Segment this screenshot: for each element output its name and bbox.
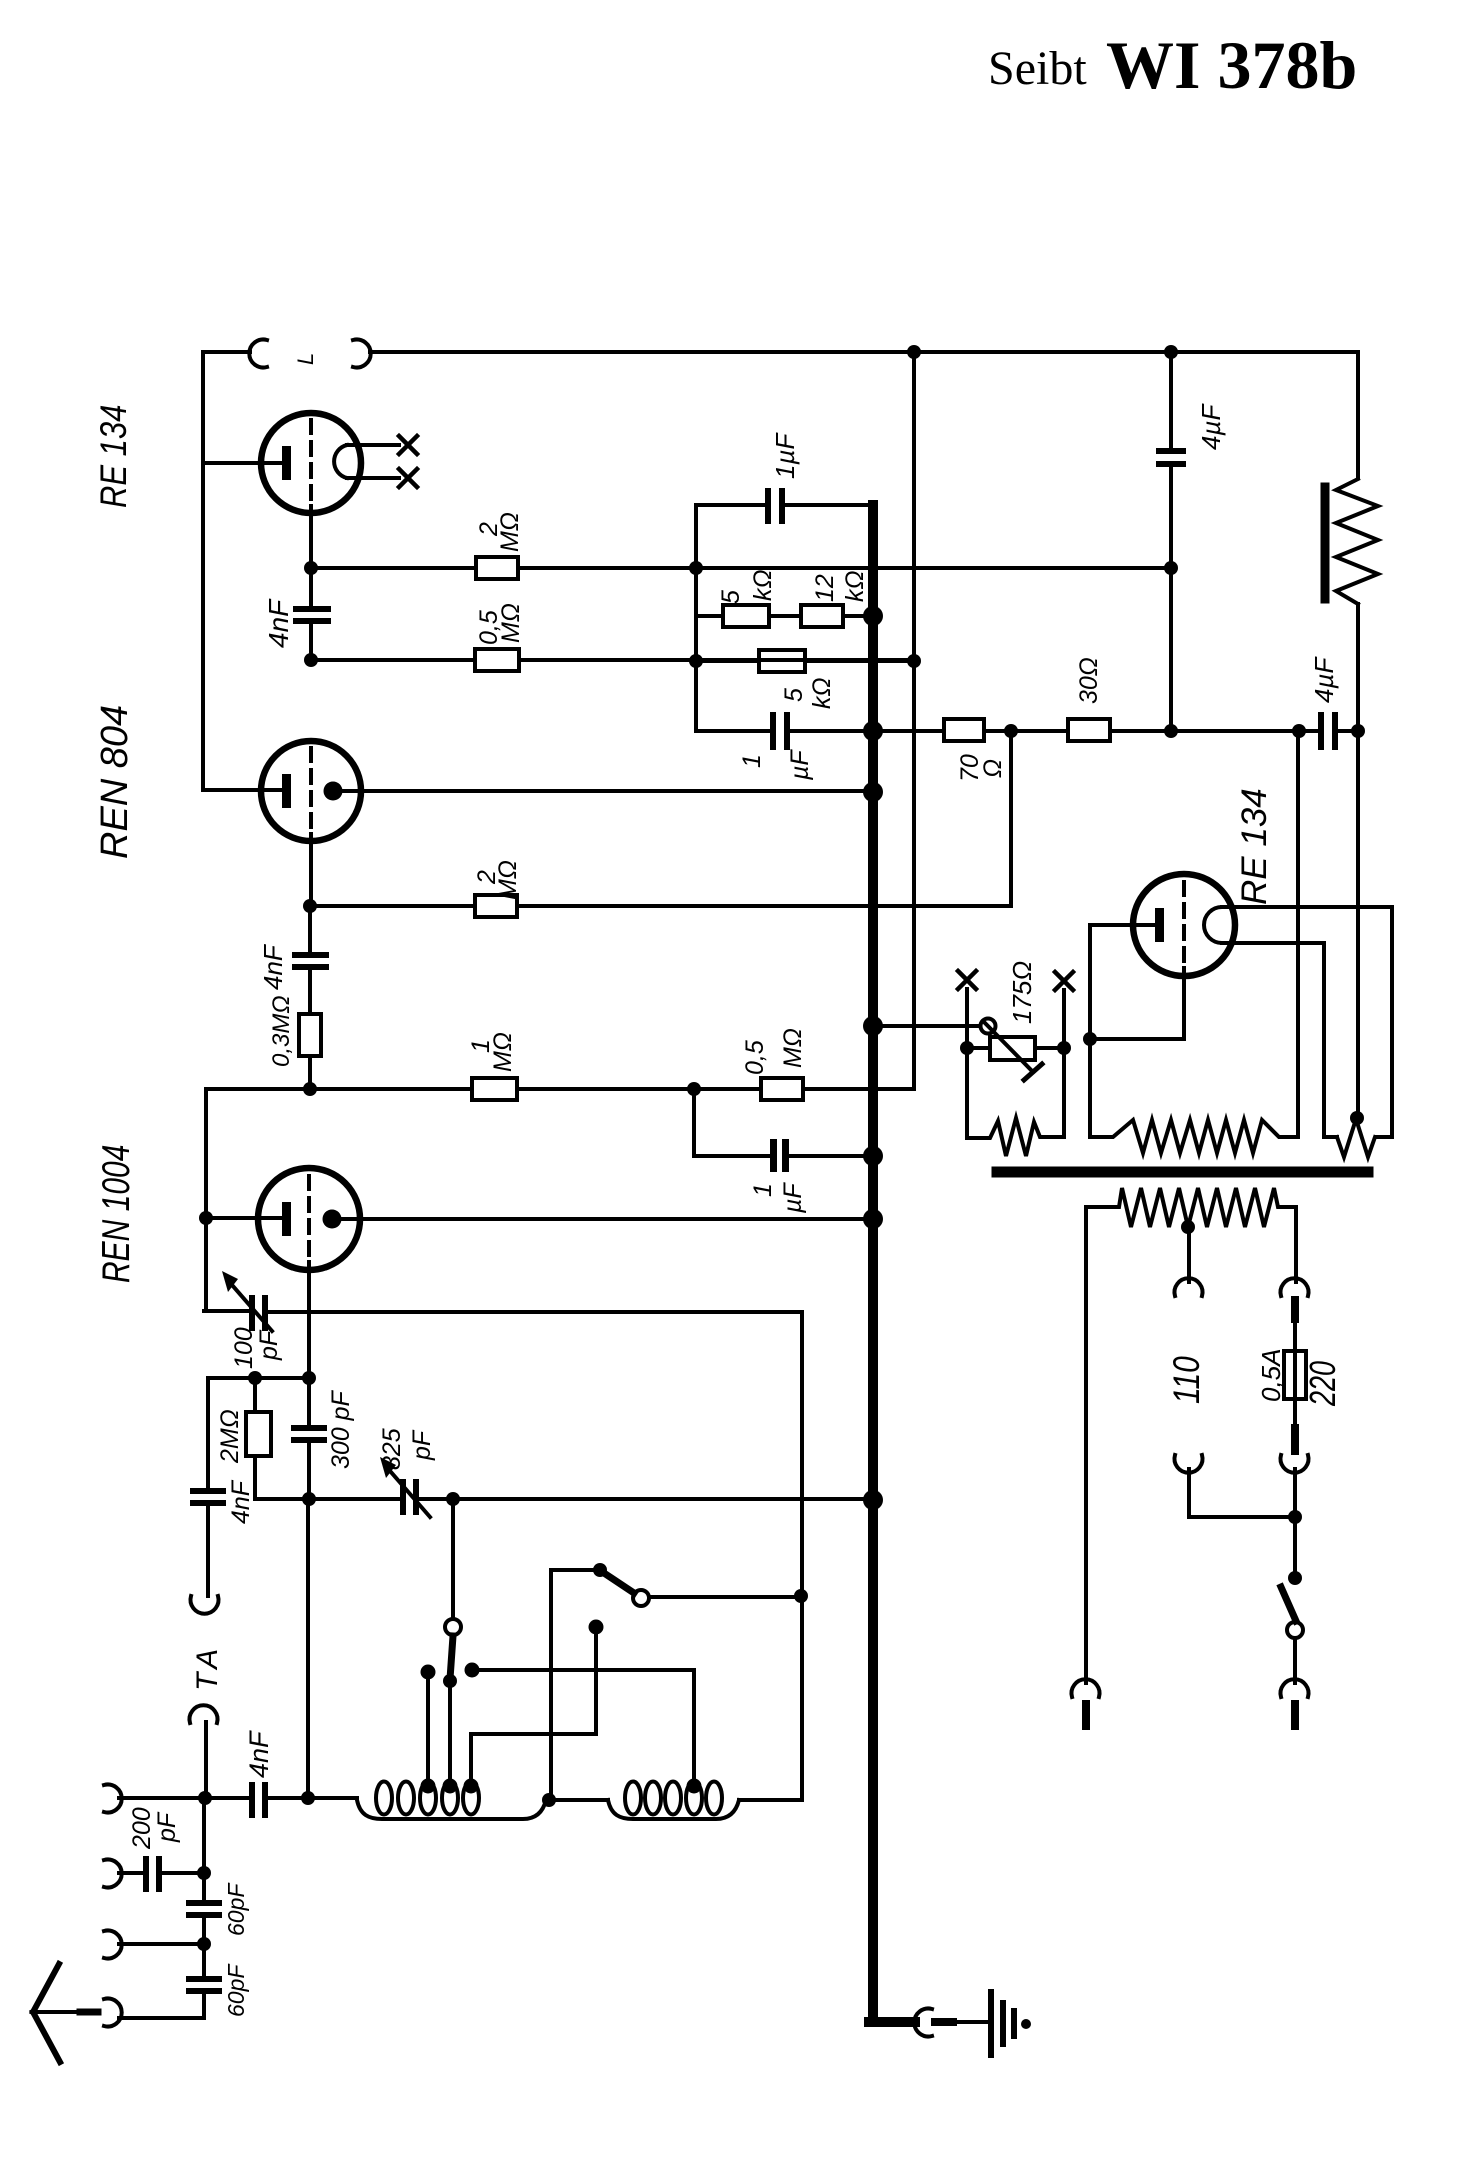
capacitor 4nF antenna <box>249 1782 255 1818</box>
svg-text:kΩ: kΩ <box>841 570 869 602</box>
wire vertical 914 <box>912 352 916 1089</box>
wire antenna row 1873 <box>119 1871 204 1875</box>
wire 0,3M to row <box>308 1056 312 1089</box>
tube V4 filament loop <box>1204 907 1222 943</box>
node junction <box>199 1211 213 1225</box>
transformer secondary winding <box>1086 1188 1296 1227</box>
resistor 30 Ohm <box>1068 719 1110 741</box>
mains terminal left pin <box>1082 1704 1090 1726</box>
potentiometer slider bar <box>1321 487 1330 599</box>
svg-text:60pF: 60pF <box>223 1963 249 2017</box>
contact dot mid <box>465 1663 480 1678</box>
antenna jack 1 <box>104 1785 122 1813</box>
wire earth <box>953 2020 988 2024</box>
wire row 906 <box>310 904 1011 908</box>
speaker jack L left contact <box>249 340 267 368</box>
wire L jack stub left <box>203 350 250 354</box>
TA jack top contact <box>191 1596 219 1614</box>
rheostat 175 slider circle <box>981 1019 996 1034</box>
wire top rail <box>370 350 1358 354</box>
wire V1 grid to node <box>309 506 313 568</box>
resistor 2 MOhm (V2 grid) <box>475 895 517 917</box>
antenna jack 2 <box>104 1860 122 1888</box>
capacitor 1uF lower <box>770 712 776 750</box>
svg-text:825: 825 <box>378 1428 406 1470</box>
wire tap 429 <box>426 1672 430 1784</box>
svg-text:12: 12 <box>811 574 839 602</box>
wire row C <box>696 614 873 618</box>
earth jack contact <box>914 2009 932 2037</box>
node junction <box>446 1492 460 1506</box>
ground symbol <box>988 1992 994 2055</box>
wire left drop 208 <box>206 1378 210 1487</box>
wire V1 filament leads <box>347 445 399 478</box>
node junction <box>794 1589 808 1603</box>
wire row 1089 <box>206 1087 914 1091</box>
mains terminal right <box>1281 1679 1309 1697</box>
wire 551 down <box>549 1570 553 1800</box>
node junction <box>197 1866 211 1880</box>
svg-text:kΩ: kΩ <box>749 569 777 601</box>
tube V3 grid (dashed) <box>307 1176 311 1262</box>
tube V2 grid (dashed) <box>309 748 313 834</box>
node junction <box>1351 724 1365 738</box>
wire between coils <box>546 1798 608 1802</box>
wire left rail 2 <box>204 1089 208 1311</box>
svg-text:µF: µF <box>779 1182 807 1214</box>
wire to fuse <box>1293 1319 1297 1351</box>
wire V4 plate lead <box>1090 923 1155 927</box>
wire V4 grid link <box>1090 968 1184 1039</box>
svg-text:MΩ: MΩ <box>779 1028 807 1068</box>
fuse 0,5A <box>1284 1351 1306 1399</box>
svg-text:4µF: 4µF <box>1309 656 1339 703</box>
X mark filament bottom <box>399 469 417 487</box>
svg-text:200: 200 <box>128 1807 156 1850</box>
coil L2 <box>608 1782 739 1820</box>
wire 175 row from bus <box>873 1024 980 1028</box>
wire V4 filament top <box>1222 907 1392 1137</box>
antenna pin <box>80 2009 98 2016</box>
svg-text:4µF: 4µF <box>1196 403 1226 450</box>
svg-text:MΩ: MΩ <box>496 512 524 552</box>
wire row 660 right <box>519 658 914 662</box>
wire 204 between 60pFs <box>202 1919 206 1976</box>
resistor 5 kOhm second <box>759 650 805 672</box>
tube V2 cathode <box>324 782 343 801</box>
switch waveband contact circle <box>445 1619 461 1635</box>
node junction <box>687 1082 701 1096</box>
wire 204 above 60pF <box>202 1873 206 1900</box>
wire row 1670 <box>472 1668 694 1672</box>
capacitor 60pF upper <box>186 1900 222 1906</box>
node junction <box>302 1492 316 1506</box>
node junction <box>302 1371 316 1385</box>
resistor 0,5 MOhm second <box>761 1078 803 1100</box>
resistor 12 kOhm <box>801 605 843 627</box>
rheostat 175 body <box>990 1037 1035 1060</box>
wire vertical 1171 lower <box>1169 468 1173 731</box>
node junction <box>304 653 318 667</box>
resistor 0,5 MOhm <box>475 649 519 671</box>
svg-text:4nF: 4nF <box>227 1479 255 1524</box>
node junction <box>1288 1510 1302 1524</box>
wire antenna row 1944 <box>119 1942 204 1946</box>
svg-text:4nF: 4nF <box>244 1730 274 1778</box>
capacitor 1uF (bus, AF) <box>770 1139 777 1172</box>
svg-text:4nF: 4nF <box>263 598 294 648</box>
transformer core <box>997 1167 1368 1178</box>
svg-text:REN 804: REN 804 <box>94 705 136 859</box>
TA jack bottom contact <box>190 1705 218 1723</box>
rheostat 175 T-bar <box>1024 1064 1042 1080</box>
svg-text:5: 5 <box>780 688 808 702</box>
wire TA to antenna row <box>204 1722 208 1798</box>
wire switch to 802 <box>649 1595 802 1599</box>
node junction <box>248 1371 262 1385</box>
tube REN804 V2 envelope <box>261 741 361 841</box>
wire coil2 to 802 <box>739 1798 802 1802</box>
svg-text:REN 1004: REN 1004 <box>95 1145 138 1283</box>
capacitor 100pF trimmer <box>204 1309 247 1313</box>
wire secondary right drop <box>1294 1207 1298 1282</box>
mains socket 220 bottom <box>1281 1455 1309 1473</box>
mains socket 110 bottom <box>1175 1455 1203 1473</box>
wire 694 to coil2 tap <box>692 1670 696 1784</box>
tube RE134 V4 envelope <box>1133 874 1235 976</box>
tube V4 grid (dashed) <box>1182 882 1186 968</box>
capacitor 4nF coupling V1 <box>309 568 313 605</box>
node junction <box>1004 724 1018 738</box>
tube V3 cathode <box>323 1210 342 1229</box>
wire 694 down to 1uF <box>694 1089 873 1156</box>
wire left rail <box>201 352 205 790</box>
tube REN1004 V3 envelope <box>258 1168 360 1270</box>
tube V1 grid (dashed) <box>309 420 313 506</box>
svg-text:pF: pF <box>255 1329 283 1361</box>
capacitor 1uF (across 5k/12k) <box>765 488 771 524</box>
title <box>988 27 1357 103</box>
wire 204 col bottom <box>202 1995 206 2018</box>
wire row E right <box>1110 729 1358 733</box>
ground bus (thick) <box>869 505 915 2022</box>
node secondary CT <box>1181 1220 1195 1234</box>
antenna symbol <box>33 1964 60 2062</box>
speaker jack L right contact <box>353 340 371 368</box>
node junction filament CT <box>1350 1111 1364 1125</box>
wire blade to coil tap <box>448 1681 452 1784</box>
tube V1 plate <box>282 446 291 480</box>
wire below fuse <box>1293 1399 1297 1427</box>
mains socket 220 top <box>1281 1278 1309 1296</box>
coil2 tap dot <box>687 1779 702 1794</box>
wire right rail mid <box>1356 604 1360 1118</box>
wire secondary CT down <box>1187 1227 1191 1282</box>
svg-text:60pF: 60pF <box>223 1882 249 1936</box>
mains terminal left <box>1072 1679 1100 1697</box>
wire V3 cathode to bus <box>341 1217 873 1221</box>
svg-text:1µF: 1µF <box>770 432 800 479</box>
svg-text:pF: pF <box>408 1429 436 1461</box>
svg-text:0,3MΩ: 0,3MΩ <box>268 995 295 1067</box>
coil L1 <box>357 1782 546 1820</box>
wire 204 to row 1798 <box>202 1798 206 1873</box>
wire secondary left drop <box>1084 1207 1088 1683</box>
svg-text:Seibt: Seibt <box>988 42 1087 95</box>
antenna jack 4 <box>104 1999 122 2027</box>
svg-text:2MΩ: 2MΩ <box>216 1409 244 1464</box>
capacitor 300 pF <box>307 1378 311 1424</box>
svg-text:RE 134: RE 134 <box>1235 788 1274 905</box>
wire row B right <box>518 566 1171 570</box>
wire V4 filament bottom <box>1222 943 1337 1137</box>
svg-text:pF: pF <box>153 1811 181 1843</box>
svg-text:220: 220 <box>1302 1361 1343 1407</box>
svg-text:5: 5 <box>717 590 745 604</box>
coil tap dots <box>421 1779 436 1794</box>
svg-text:100: 100 <box>230 1327 258 1369</box>
svg-text:MΩ: MΩ <box>497 603 525 643</box>
resistor 1 MOhm <box>472 1078 517 1100</box>
wire vertical 1171 upper <box>1169 352 1173 446</box>
node junction <box>304 561 318 575</box>
capacitor 4nF (V2 grid chain) <box>308 906 312 951</box>
node junction <box>689 654 703 668</box>
wire row 1570 <box>551 1568 596 1572</box>
X mark lamp right <box>1055 972 1073 990</box>
capacitor 4nF (TA) <box>190 1488 226 1494</box>
mains switch blade <box>1281 1587 1296 1621</box>
capacitor 825pF trimmer <box>400 1479 406 1515</box>
node junction <box>198 1791 212 1805</box>
wire V3 plate lead <box>206 1216 284 1220</box>
svg-text:30Ω: 30Ω <box>1075 657 1103 704</box>
wire vertical 802 <box>800 1312 804 1800</box>
node junction <box>1083 1032 1097 1046</box>
pilot winding zigzag <box>967 1118 1064 1156</box>
resistor 2 MOhm (V1 grid leak) <box>476 557 518 579</box>
wire antenna stub <box>33 2010 79 2014</box>
tube RE134 V1 envelope <box>261 413 361 513</box>
wire V4 plate drop <box>1088 925 1092 1137</box>
wire row E mid <box>984 729 1068 733</box>
tube V4 plate <box>1155 908 1164 942</box>
mains switch contact circle <box>1287 1622 1303 1638</box>
wire 308 to antenna row <box>306 1499 310 1798</box>
svg-text:RE 134: RE 134 <box>93 405 134 508</box>
wire row 1378 <box>208 1376 309 1380</box>
svg-text:kΩ: kΩ <box>808 677 836 709</box>
filament winding (V4) <box>1337 1119 1375 1157</box>
bus junction dots <box>863 606 883 626</box>
wire to TA jack <box>206 1507 210 1596</box>
svg-text:MΩ: MΩ <box>494 860 522 900</box>
node junction row D end <box>907 654 921 668</box>
svg-text:1: 1 <box>749 1183 777 1197</box>
svg-text:L: L <box>293 353 318 365</box>
tube V3 plate <box>282 1202 291 1236</box>
wire row B left <box>311 566 476 570</box>
resistor 2MOhm (grid leak V3) <box>253 1378 257 1412</box>
wire V3 grid down <box>307 1262 311 1378</box>
capacitor 60pF lower <box>186 1976 222 1982</box>
wire V2 grid down <box>309 834 313 906</box>
node junction top rail 2 <box>1164 345 1178 359</box>
node junction row B end <box>1164 561 1178 575</box>
svg-text:TA: TA <box>191 1643 224 1691</box>
svg-text:175Ω: 175Ω <box>1007 961 1037 1024</box>
resistor 0,3 MOhm <box>299 1014 321 1056</box>
wire antenna row 2018 <box>119 2016 204 2020</box>
node junction top rail <box>907 345 921 359</box>
wire 453 to wave switch <box>451 1499 455 1619</box>
mains terminal right pin <box>1291 1704 1299 1726</box>
wire lamp stubs <box>967 989 1064 1048</box>
antenna jack 3 <box>104 1930 122 1958</box>
transformer primary winding <box>1090 1120 1298 1153</box>
tube V1 filament loop <box>334 445 347 478</box>
svg-text:0,5: 0,5 <box>741 1040 769 1075</box>
contact dot right <box>589 1620 604 1635</box>
wire row 1499 <box>255 1497 873 1501</box>
wire row A <box>696 503 873 507</box>
wire 110 down <box>1187 1469 1191 1517</box>
node junction <box>301 1791 315 1805</box>
node junction <box>1057 1041 1071 1055</box>
switch waveband blade <box>450 1636 453 1679</box>
wire V2 cathode to bus <box>342 789 873 793</box>
tube V2 plate <box>282 774 291 808</box>
voltage link pin top <box>1291 1300 1299 1319</box>
node junction <box>1164 724 1178 738</box>
switch antenna blade <box>604 1573 634 1593</box>
resistor 5 kOhm <box>723 605 769 627</box>
contact dot left <box>421 1665 436 1680</box>
node junction <box>443 1674 457 1688</box>
rheostat 175 diagonal <box>985 1023 1033 1072</box>
wire pilot winding drops <box>967 1048 1064 1138</box>
svg-text:0,5A: 0,5A <box>1256 1349 1286 1403</box>
wire row 1734 <box>472 1732 596 1736</box>
svg-text:4nF: 4nF <box>258 943 288 990</box>
wire 1011 vertical <box>1009 731 1013 906</box>
wire switch to terminal <box>1293 1638 1297 1683</box>
wire primary right riser <box>1296 731 1300 1137</box>
svg-text:110: 110 <box>1166 1356 1208 1404</box>
wire left shunt vertical <box>694 505 698 731</box>
wire 220 down <box>1293 1469 1297 1578</box>
wire RE134 plate lead <box>203 461 284 465</box>
svg-text:MΩ: MΩ <box>489 1032 517 1072</box>
node junction <box>689 561 703 575</box>
voltage link pin bottom <box>1291 1428 1299 1451</box>
switch antenna blade pivot <box>593 1563 607 1577</box>
X mark filament top <box>399 436 417 454</box>
wire REN804 plate lead <box>203 788 284 792</box>
earth pin <box>935 2018 953 2026</box>
wire 472 to coil tap <box>469 1734 473 1784</box>
node junction <box>542 1793 556 1807</box>
wire row 660 left <box>311 658 475 662</box>
wire antenna row 1798 <box>119 1796 357 1800</box>
wire row D <box>696 659 914 663</box>
wire row 1048 <box>967 1046 1064 1050</box>
svg-text:1: 1 <box>738 754 766 768</box>
wire row 1312 <box>269 1310 802 1314</box>
mains socket 110 top <box>1175 1278 1203 1296</box>
svg-text:WI 378b: WI 378b <box>1106 27 1357 103</box>
resistor 70 Ohm <box>944 719 984 741</box>
wire row E <box>696 729 944 733</box>
node junction <box>303 899 317 913</box>
X mark lamp left <box>958 971 976 989</box>
node junction <box>960 1041 974 1055</box>
node junction switch pivot <box>1288 1571 1302 1585</box>
switch antenna contact circle <box>633 1590 649 1606</box>
capacitor 200 pF <box>143 1856 149 1892</box>
node junction <box>303 1082 317 1096</box>
svg-text:µF: µF <box>786 749 814 781</box>
svg-text:Ω: Ω <box>979 759 1007 778</box>
svg-text:300 pF: 300 pF <box>327 1389 355 1469</box>
capacitor 4uF (top) <box>1156 448 1186 454</box>
node junction <box>197 1937 211 1951</box>
capacitor 4uF (row E) <box>1318 712 1324 750</box>
node junction <box>1292 724 1306 738</box>
wire 596 down <box>594 1627 598 1734</box>
wire row 1517 <box>1189 1515 1295 1519</box>
potentiometer speaker (zigzag) <box>1336 479 1378 604</box>
wire right rail upper <box>1356 352 1360 478</box>
